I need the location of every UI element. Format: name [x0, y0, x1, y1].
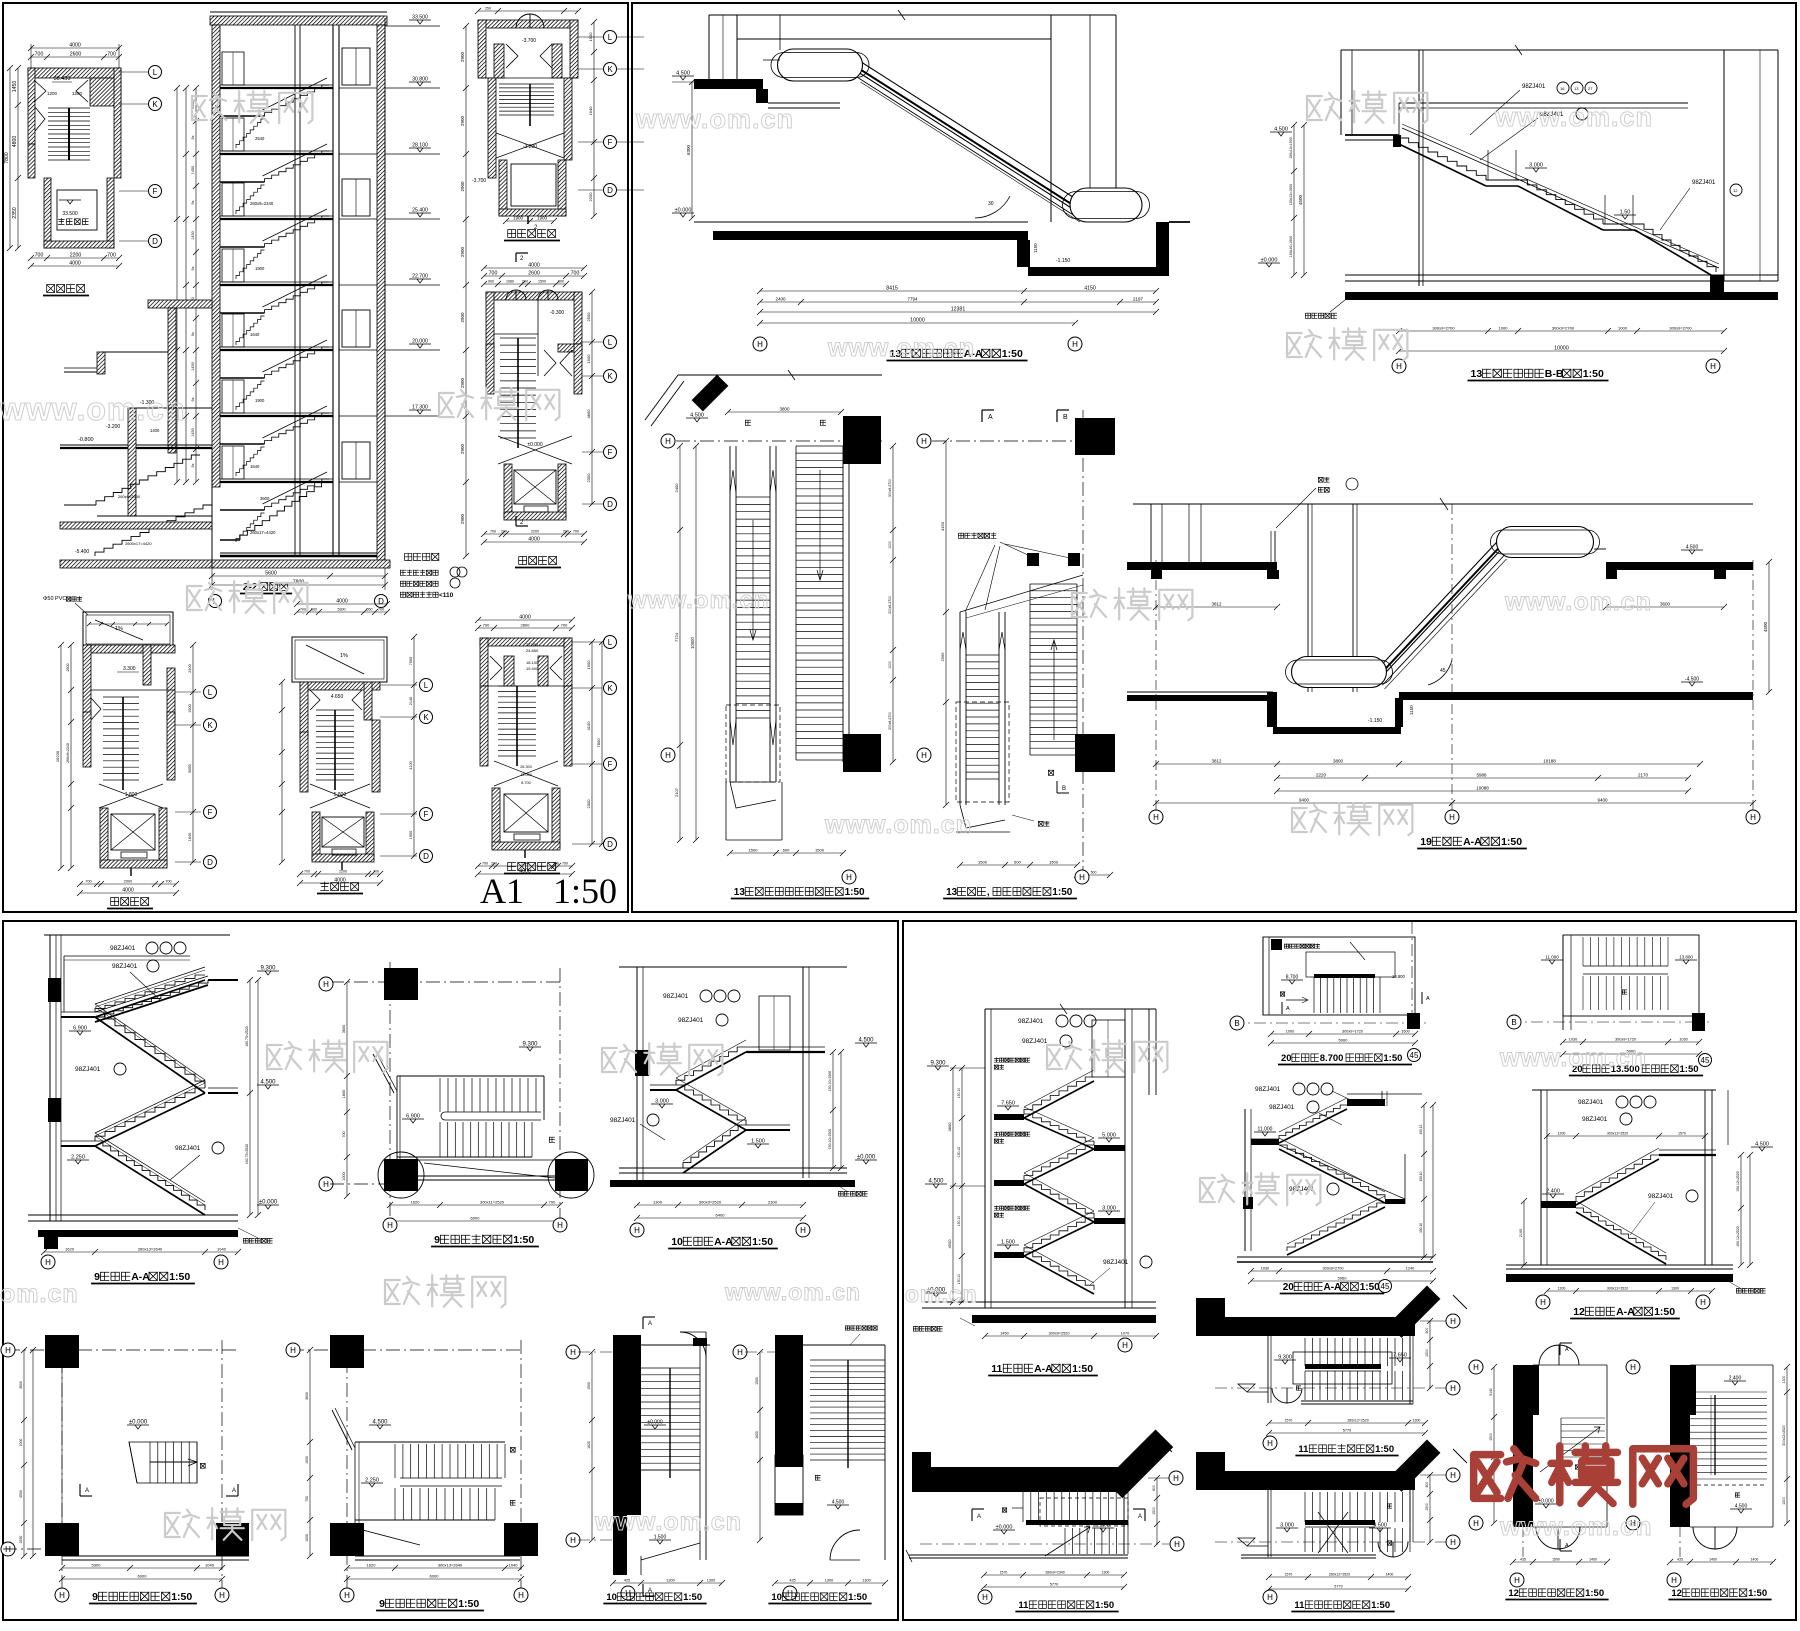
- svg-text:1450: 1450: [1000, 1332, 1008, 1336]
- svg-text:22.700: 22.700: [412, 274, 428, 280]
- svg-text:2140: 2140: [409, 697, 413, 705]
- esc 19 A-A section: [1133, 503, 1753, 505]
- svg-text:300x9=2520: 300x9=2520: [1048, 1332, 1069, 1336]
- plan dixiaceng: [478, 10, 578, 12]
- svg-text:L: L: [608, 33, 613, 42]
- svg-text:550: 550: [367, 608, 373, 612]
- svg-text:2900: 2900: [460, 181, 465, 192]
- svg-text:45: 45: [1440, 668, 1446, 674]
- svg-text:1:50: 1:50: [1371, 1600, 1390, 1611]
- svg-text:2600: 2600: [528, 271, 540, 277]
- svg-text:10: 10: [606, 1592, 617, 1603]
- svg-text:1570: 1570: [1285, 1573, 1293, 1577]
- svg-text:150x12=1500: 150x12=1500: [1289, 184, 1293, 205]
- svg-text:A: A: [977, 1514, 981, 1520]
- svg-text:H: H: [219, 1591, 225, 1600]
- svg-text:3600: 3600: [19, 1381, 23, 1389]
- svg-text:A-A: A-A: [714, 1236, 733, 1248]
- svg-text:700: 700: [85, 880, 91, 884]
- svg-text:K: K: [607, 372, 613, 381]
- svg-text:300x9=2700: 300x9=2700: [1552, 326, 1575, 331]
- svg-text:700: 700: [561, 623, 568, 628]
- svg-text:700: 700: [573, 530, 579, 534]
- svg-text:1300: 1300: [666, 1579, 674, 1583]
- svg-text:5650: 5650: [188, 764, 192, 772]
- plan biaozhunceng: [478, 619, 572, 621]
- svg-text:150.10=1500: 150.10=1500: [828, 1129, 832, 1150]
- svg-text:1040: 1040: [509, 1563, 519, 1568]
- svg-text:1300: 1300: [1782, 1376, 1786, 1384]
- svg-text:700: 700: [482, 862, 488, 866]
- svg-text:800: 800: [1425, 1328, 1429, 1334]
- svg-text:2220: 2220: [1316, 773, 1327, 778]
- svg-text:L: L: [608, 638, 613, 647]
- svg-text:1000: 1000: [1286, 1030, 1294, 1034]
- svg-text:H: H: [737, 1348, 743, 1357]
- svg-text:12381: 12381: [951, 307, 966, 313]
- svg-text:H: H: [1450, 1538, 1456, 1547]
- svg-text:900: 900: [488, 280, 494, 284]
- svg-text:1450: 1450: [191, 362, 195, 370]
- svg-text:33.500: 33.500: [62, 211, 78, 217]
- svg-text:1070: 1070: [1121, 1332, 1129, 1336]
- svg-text:1500: 1500: [538, 280, 546, 284]
- svg-text:1570: 1570: [1678, 1132, 1686, 1136]
- svg-text:±0.000: ±0.000: [675, 208, 692, 214]
- notes: [405, 553, 412, 560]
- svg-text:5770: 5770: [1334, 1585, 1342, 1589]
- svg-text:4.500: 4.500: [1735, 1504, 1748, 1510]
- stair20 A-A section: [1244, 1109, 1246, 1251]
- svg-text:260x9=2340: 260x9=2340: [118, 494, 141, 499]
- svg-text:98ZJ401: 98ZJ401: [678, 1017, 704, 1024]
- svg-text:1500: 1500: [587, 1382, 591, 1390]
- svg-text:3.000: 3.000: [1280, 1523, 1294, 1529]
- svg-text:4.500: 4.500: [858, 1038, 874, 1044]
- svg-text:13: 13: [1574, 86, 1579, 91]
- svg-text:12: 12: [1671, 1588, 1682, 1599]
- svg-text:300x9=2700: 300x9=2700: [1322, 1267, 1343, 1271]
- svg-text:4.500: 4.500: [832, 1500, 845, 1506]
- svg-text:7.650: 7.650: [1001, 1101, 1015, 1107]
- svg-text:300x9=1720: 300x9=1720: [1342, 1030, 1363, 1034]
- svg-text:1450: 1450: [191, 166, 195, 174]
- svg-text:1900: 1900: [537, 216, 548, 221]
- svg-text:www.om.cn: www.om.cn: [635, 104, 794, 134]
- svg-text:D: D: [607, 186, 613, 195]
- svg-text:1200: 1200: [72, 91, 83, 96]
- svg-text:12: 12: [1733, 188, 1738, 193]
- stair20 plan 8.700: [1262, 937, 1264, 1015]
- svg-text:2566: 2566: [940, 652, 945, 662]
- svg-text:98ZJ401: 98ZJ401: [1103, 1259, 1129, 1266]
- svg-text:5960: 5960: [1338, 1276, 1348, 1281]
- svg-text:4800: 4800: [586, 409, 591, 419]
- svg-text:B-B: B-B: [1545, 368, 1564, 380]
- svg-text:8.700: 8.700: [1320, 1053, 1344, 1064]
- svg-text:2107: 2107: [674, 787, 679, 797]
- stair9 A-A section: [49, 935, 51, 1221]
- svg-text:1500: 1500: [749, 848, 759, 853]
- svg-text:9x: 9x: [191, 135, 195, 139]
- svg-text:1400: 1400: [1386, 1573, 1394, 1577]
- svg-text:H: H: [1450, 1317, 1456, 1326]
- svg-text:3.000: 3.000: [1529, 163, 1543, 169]
- svg-text:H: H: [1267, 1439, 1273, 1448]
- svg-text:1:50: 1:50: [1501, 836, 1522, 848]
- svg-text:6400: 6400: [716, 1213, 726, 1218]
- svg-text:425: 425: [624, 1579, 630, 1583]
- svg-text:1150: 1150: [1033, 243, 1038, 253]
- svg-text:A: A: [1565, 1543, 1569, 1549]
- svg-text:2900: 2900: [460, 312, 465, 323]
- svg-text:6.900: 6.900: [406, 1114, 420, 1120]
- svg-text:98ZJ401: 98ZJ401: [75, 1066, 101, 1073]
- svg-text:98ZJ401: 98ZJ401: [663, 993, 689, 1000]
- svg-text:5300: 5300: [92, 1563, 102, 1568]
- svg-text:1400: 1400: [150, 428, 160, 433]
- svg-text:20.000: 20.000: [412, 339, 428, 345]
- svg-text:1:50: 1:50: [1585, 1588, 1604, 1599]
- svg-text:1:50: 1:50: [845, 887, 865, 898]
- svg-text:11.000: 11.000: [1545, 955, 1559, 960]
- svg-text:1300: 1300: [1782, 1497, 1786, 1505]
- svg-text:A: A: [1138, 1514, 1142, 1520]
- svg-text:7794: 7794: [907, 297, 918, 302]
- svg-text:98ZJ401: 98ZJ401: [1582, 1116, 1608, 1123]
- svg-text:1500: 1500: [1049, 860, 1059, 865]
- svg-text:2197: 2197: [1133, 297, 1144, 302]
- svg-text:98ZJ401: 98ZJ401: [1018, 1018, 1044, 1025]
- svg-text:A-A: A-A: [1324, 1282, 1342, 1293]
- svg-text:H: H: [1750, 813, 1756, 822]
- svg-text:260x17=4420: 260x17=4420: [250, 530, 276, 535]
- svg-text:H: H: [1449, 813, 1455, 822]
- svg-text:4800: 4800: [947, 1122, 952, 1132]
- svg-text:2200: 2200: [531, 530, 539, 534]
- svg-text:,: ,: [987, 887, 990, 898]
- svg-text:H: H: [1173, 1474, 1179, 1483]
- svg-text:1:50: 1:50: [752, 1236, 773, 1248]
- svg-text:1450: 1450: [191, 428, 195, 436]
- svg-text:98ZJ401: 98ZJ401: [1522, 84, 1546, 90]
- svg-text:1200: 1200: [47, 91, 58, 96]
- svg-text:5140: 5140: [1489, 1388, 1493, 1396]
- svg-text:200: 200: [563, 530, 569, 534]
- svg-text:800: 800: [1152, 1485, 1156, 1491]
- svg-text:5300: 5300: [338, 608, 346, 612]
- svg-text:2200: 2200: [70, 253, 82, 259]
- svg-text:H: H: [1079, 873, 1085, 882]
- svg-text:435: 435: [1677, 1558, 1683, 1562]
- svg-text:700: 700: [490, 530, 496, 534]
- svg-text:12: 12: [1573, 1306, 1585, 1318]
- svg-text:2600: 2600: [66, 664, 70, 672]
- svg-text:1400: 1400: [1709, 1558, 1717, 1562]
- svg-text:1500: 1500: [586, 660, 591, 670]
- svg-text:1570: 1570: [1285, 1419, 1293, 1423]
- svg-text:16200: 16200: [55, 750, 60, 762]
- svg-text:4150: 4150: [940, 521, 945, 531]
- svg-text:150.12: 150.12: [957, 1147, 961, 1157]
- svg-text:700: 700: [373, 870, 379, 874]
- svg-text:9x: 9x: [191, 266, 195, 270]
- watermarks: [192, 96, 207, 120]
- svg-text:1300: 1300: [825, 1579, 833, 1583]
- svg-text:±0.000: ±0.000: [259, 1200, 278, 1206]
- svg-text:9x: 9x: [191, 200, 195, 204]
- svg-text:7724: 7724: [674, 632, 679, 642]
- svg-text:150x10=1500: 150x10=1500: [1289, 236, 1293, 257]
- svg-text:4.650: 4.650: [331, 694, 344, 700]
- svg-text:F: F: [608, 760, 613, 769]
- svg-text:2250: 2250: [19, 1536, 23, 1544]
- svg-text:www.om.cn: www.om.cn: [724, 1279, 861, 1305]
- svg-text:2100: 2100: [1519, 1229, 1523, 1237]
- svg-text:H: H: [1473, 1519, 1479, 1528]
- svg-text:2800: 2800: [521, 623, 531, 628]
- svg-text:15.400: 15.400: [526, 666, 539, 671]
- svg-text:16: 16: [1560, 86, 1565, 91]
- svg-text:9x: 9x: [191, 332, 195, 336]
- svg-text:1:50: 1:50: [169, 1271, 190, 1283]
- svg-text:1620: 1620: [65, 1247, 75, 1252]
- svg-text:A-A: A-A: [131, 1271, 150, 1283]
- svg-text:1500: 1500: [1489, 1433, 1493, 1441]
- stair11 plan level1: [912, 1467, 1128, 1492]
- svg-text:150.10: 150.10: [957, 1088, 961, 1098]
- svg-text:13: 13: [734, 887, 746, 898]
- svg-text:4.500: 4.500: [1373, 1523, 1387, 1529]
- svg-text:1:50: 1:50: [683, 1592, 702, 1603]
- svg-text:1:50: 1:50: [1654, 1306, 1675, 1318]
- svg-text:10000: 10000: [1554, 346, 1569, 352]
- svg-text:H: H: [1450, 1384, 1456, 1393]
- svg-text:5770: 5770: [1050, 1583, 1058, 1587]
- svg-text:1:50: 1:50: [1360, 1282, 1380, 1293]
- svg-text:4000: 4000: [69, 261, 81, 267]
- svg-text:H: H: [1514, 1576, 1520, 1585]
- svg-text:7800: 7800: [596, 738, 601, 748]
- svg-text:260x9=2340: 260x9=2340: [250, 201, 274, 206]
- svg-text:1500: 1500: [1152, 1507, 1156, 1515]
- svg-text:4800: 4800: [12, 136, 18, 148]
- esc 13 A-A section: [709, 14, 1116, 16]
- svg-text:1150: 1150: [1409, 705, 1414, 715]
- svg-text:4100: 4100: [586, 721, 591, 731]
- svg-text:-0.800: -0.800: [78, 437, 94, 443]
- svg-text:300x9-2700: 300x9-2700: [888, 479, 892, 497]
- svg-text:700: 700: [304, 870, 310, 874]
- svg-text:4500: 4500: [947, 1239, 952, 1249]
- svg-text:11: 11: [1298, 1444, 1309, 1455]
- svg-text:1300: 1300: [1671, 1287, 1679, 1291]
- svg-text:H: H: [59, 1591, 65, 1600]
- svg-text:1640: 1640: [188, 833, 192, 841]
- svg-text:K: K: [207, 721, 213, 730]
- svg-text:7000: 7000: [409, 657, 413, 665]
- svg-text:2900: 2900: [460, 443, 465, 454]
- stair12 A-A section: [1532, 1089, 1716, 1091]
- svg-text:11.000: 11.000: [1258, 1127, 1273, 1133]
- svg-text:2.400: 2.400: [1546, 1189, 1560, 1195]
- svg-text:250: 250: [485, 7, 491, 11]
- svg-text:4000: 4000: [69, 43, 81, 49]
- svg-text:30.800: 30.800: [412, 77, 428, 83]
- svg-text:9: 9: [92, 1591, 98, 1603]
- svg-text:300x9=2700: 300x9=2700: [1432, 326, 1455, 331]
- svg-text:300x9-2700: 300x9-2700: [888, 596, 892, 614]
- svg-text:1500: 1500: [588, 32, 593, 42]
- stair12 plan level2: [1626, 1360, 1640, 1374]
- svg-text:300x13=2640: 300x13=2640: [438, 1563, 463, 1568]
- svg-text:6300: 6300: [686, 144, 691, 155]
- svg-text:4500: 4500: [1763, 621, 1768, 632]
- stair20 plan 13.5: [1562, 935, 1564, 1030]
- svg-text:4.500: 4.500: [1686, 545, 1699, 551]
- svg-text:5600: 5600: [265, 571, 277, 577]
- svg-text:5988: 5988: [1476, 773, 1487, 778]
- svg-text:1600: 1600: [1401, 1030, 1409, 1034]
- svg-text:-5.400: -5.400: [75, 549, 89, 555]
- svg-text:www.om.cn: www.om.cn: [1494, 102, 1653, 132]
- svg-text:D: D: [378, 597, 384, 606]
- svg-text:3.300: 3.300: [123, 666, 136, 672]
- svg-text:11: 11: [1294, 1600, 1305, 1611]
- svg-text:H: H: [1267, 1593, 1273, 1602]
- svg-text:1300: 1300: [653, 1200, 663, 1205]
- svg-text:1:50: 1:50: [1383, 1053, 1402, 1064]
- stair11 A-A section: [985, 1008, 1156, 1010]
- svg-text:7.650: 7.650: [1393, 1353, 1407, 1359]
- svg-text:H: H: [387, 1221, 393, 1230]
- svg-text:160.75=2520: 160.75=2520: [245, 1026, 249, 1047]
- section 2-2: [210, 16, 387, 25]
- svg-text:4.500: 4.500: [928, 1179, 944, 1185]
- svg-text:150x10=1500: 150x10=1500: [1289, 137, 1293, 158]
- svg-text:1.500: 1.500: [751, 1139, 765, 1145]
- svg-text:www.om.cn: www.om.cn: [1504, 588, 1652, 616]
- svg-text:om.cn: om.cn: [905, 1281, 978, 1307]
- svg-text:www.om.cn: www.om.cn: [627, 587, 769, 614]
- svg-text:1030: 1030: [1261, 1267, 1269, 1271]
- svg-text:1500: 1500: [1425, 1503, 1429, 1511]
- svg-text:3812: 3812: [1211, 602, 1222, 607]
- svg-text:H: H: [1122, 1341, 1128, 1350]
- svg-text:A: A: [1565, 1347, 1569, 1353]
- svg-text:1000: 1000: [1499, 326, 1509, 331]
- svg-text:1200: 1200: [1558, 1132, 1566, 1136]
- svg-text:260x9=2340: 260x9=2340: [1045, 1571, 1064, 1575]
- svg-text:4000: 4000: [528, 537, 540, 543]
- plan dingceng: [31, 47, 119, 49]
- svg-text:160.75=2520: 160.75=2520: [245, 1144, 249, 1165]
- svg-text:1080: 1080: [506, 280, 514, 284]
- svg-text:D: D: [607, 840, 613, 849]
- svg-text:1030: 1030: [1679, 1038, 1687, 1042]
- svg-text:H: H: [846, 873, 852, 882]
- svg-text:13.800: 13.800: [1679, 955, 1693, 960]
- svg-text:H: H: [570, 1536, 576, 1545]
- svg-text:1.800: 1.800: [125, 792, 138, 798]
- svg-text:9x: 9x: [191, 463, 195, 467]
- svg-text:D: D: [607, 500, 613, 509]
- svg-text:1000: 1000: [1618, 326, 1628, 331]
- esc13 plan level2: [678, 374, 882, 376]
- svg-text:45: 45: [1410, 1051, 1419, 1060]
- svg-text:2400: 2400: [188, 664, 192, 672]
- svg-text:8.700: 8.700: [1286, 975, 1299, 981]
- svg-text:300x9=2700: 300x9=2700: [1669, 326, 1692, 331]
- svg-text:1040: 1040: [217, 1247, 227, 1252]
- svg-text:F: F: [208, 808, 213, 817]
- svg-text:-3.200: -3.200: [523, 144, 537, 150]
- svg-text:25.400: 25.400: [412, 208, 428, 214]
- svg-text:2.250: 2.250: [365, 1478, 379, 1484]
- stair10 plan level2: [733, 1345, 747, 1359]
- svg-text:600: 600: [1014, 860, 1021, 865]
- stair11 plan level2: [1196, 1471, 1415, 1490]
- svg-text:1500: 1500: [188, 704, 192, 712]
- svg-text:L: L: [608, 338, 613, 347]
- svg-text:13.000: 13.000: [520, 773, 532, 777]
- svg-text:1450: 1450: [12, 81, 18, 93]
- svg-text:700: 700: [107, 52, 116, 58]
- svg-text:H: H: [1450, 1471, 1456, 1480]
- svg-text:H: H: [218, 1258, 224, 1267]
- svg-text:1:50: 1:50: [1583, 368, 1604, 380]
- svg-text:9400: 9400: [1299, 798, 1310, 803]
- svg-text:K: K: [152, 100, 158, 109]
- svg-text:A: A: [648, 1321, 652, 1327]
- svg-text:10: 10: [771, 1592, 782, 1603]
- svg-text:700: 700: [35, 52, 44, 58]
- svg-text:D: D: [152, 237, 158, 246]
- svg-text:H: H: [1630, 1363, 1636, 1372]
- annex lower left: [148, 300, 212, 308]
- svg-text:L: L: [424, 681, 429, 690]
- svg-text:H: H: [570, 1348, 576, 1357]
- svg-text:9: 9: [379, 1598, 385, 1610]
- svg-text:2900: 2900: [460, 51, 465, 62]
- svg-text:20: 20: [1283, 1282, 1295, 1293]
- svg-text:1040: 1040: [205, 1563, 215, 1568]
- stair9 plan level1: [6, 1349, 240, 1351]
- svg-text:H: H: [1671, 1576, 1677, 1585]
- svg-text:F: F: [608, 448, 613, 457]
- svg-text:9400: 9400: [1597, 798, 1608, 803]
- svg-text:www.om.cn: www.om.cn: [594, 1508, 742, 1536]
- svg-text:H: H: [1540, 1298, 1546, 1307]
- svg-text:300x13=2520: 300x13=2520: [1607, 1132, 1628, 1136]
- svg-text:600: 600: [783, 848, 790, 853]
- svg-text:2350: 2350: [586, 473, 591, 483]
- svg-text:F: F: [153, 187, 158, 196]
- svg-text:9: 9: [434, 1234, 440, 1246]
- svg-text:1640: 1640: [250, 332, 260, 337]
- svg-text:-1.150: -1.150: [1368, 718, 1382, 724]
- svg-text:150.12=2520: 150.12=2520: [1736, 1226, 1740, 1247]
- svg-text:13: 13: [1471, 368, 1483, 380]
- svg-text:13: 13: [946, 887, 958, 898]
- svg-text:28.100: 28.100: [412, 143, 428, 149]
- big red watermark: [1474, 1455, 1501, 1499]
- svg-text:1:50: 1:50: [458, 1598, 479, 1610]
- svg-text:11: 11: [1018, 1600, 1029, 1611]
- svg-text:1620: 1620: [587, 1441, 591, 1449]
- plan sanceng: [297, 603, 387, 605]
- svg-text:±0.000: ±0.000: [647, 1420, 662, 1426]
